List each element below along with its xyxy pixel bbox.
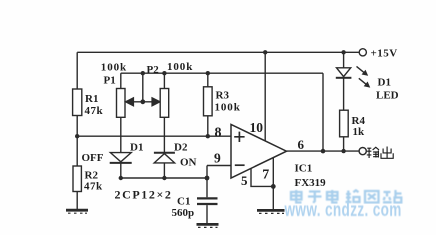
wire left column R1 top lead	[76, 52, 78, 89]
svg-text:2CP12×2: 2CP12×2	[115, 188, 173, 202]
resistor R4	[340, 110, 349, 137]
ground below op-amp	[257, 210, 285, 213]
wire output line pin 6	[287, 150, 359, 152]
ground below C1	[197, 224, 219, 227]
wiper arrows of P1 and P2	[126, 73, 160, 106]
glyph chu	[381, 147, 393, 159]
node pins 5-7 join	[271, 184, 276, 189]
wire LED branch top	[343, 52, 345, 68]
svg-text:P2: P2	[147, 64, 160, 76]
svg-text:R3: R3	[216, 90, 230, 102]
svg-text:FX319: FX319	[295, 177, 327, 189]
node divider tap	[75, 134, 79, 138]
wm char zi	[308, 192, 322, 203]
label 输出 (output, hand-drawn glyphs)	[367, 147, 393, 159]
svg-text:47k: 47k	[84, 181, 103, 193]
wire top +15V rail	[77, 51, 359, 53]
node pin10 supply tap	[263, 50, 267, 54]
svg-text:100k: 100k	[101, 61, 127, 73]
svg-text:C1: C1	[177, 196, 190, 208]
minus sign	[235, 164, 245, 166]
plus sign	[234, 132, 244, 142]
wire pin 10 supply	[264, 52, 266, 141]
wm char zhan	[383, 190, 402, 203]
svg-text:www. cndzz. com: www. cndzz. com	[284, 200, 402, 221]
node D2 bottom	[162, 176, 166, 180]
wire feedback vertical	[322, 73, 324, 151]
svg-text:OFF: OFF	[82, 152, 104, 164]
diode D1	[110, 153, 132, 178]
potentiometer P1	[117, 89, 126, 118]
node D1 bottom	[119, 176, 123, 180]
wire feedback rail	[121, 72, 323, 74]
wire P1 top lead	[120, 73, 122, 88]
svg-text:6: 6	[298, 137, 305, 152]
resistor R2	[73, 166, 81, 192]
wire pin 5	[251, 168, 273, 186]
svg-text:IC1: IC1	[295, 163, 313, 175]
node R3 bottom	[206, 134, 210, 138]
terminal output	[359, 148, 366, 155]
svg-text:100k: 100k	[167, 61, 193, 73]
wire pin8 rail (non-inverting input net)	[77, 135, 231, 137]
svg-text:ON: ON	[180, 157, 197, 169]
wm char dian	[291, 190, 302, 203]
wire R2 to ground	[76, 192, 78, 210]
wire P2 bottom lead	[163, 117, 165, 152]
wire riser to pin 9	[206, 166, 208, 179]
wm char tu	[365, 191, 379, 203]
svg-text:5: 5	[241, 173, 248, 188]
svg-text:100k: 100k	[215, 102, 241, 114]
terminal +15V	[359, 49, 366, 56]
node R4 bottom	[341, 149, 345, 153]
resistor R3	[204, 87, 213, 116]
svg-text:47k: 47k	[85, 105, 104, 117]
wire R4 bottom lead	[343, 137, 345, 151]
wire inverting rail under diodes	[121, 177, 207, 179]
wire P2 top lead	[163, 73, 165, 88]
svg-text:1k: 1k	[353, 126, 366, 138]
svg-text:+15V: +15V	[371, 48, 398, 60]
svg-text:D1: D1	[378, 77, 391, 89]
ground below R2	[66, 210, 88, 213]
svg-text:8: 8	[215, 125, 222, 140]
watermark 电子电路图站 (hand-drawn, light blue)	[291, 190, 402, 203]
wm char lu	[346, 190, 360, 202]
svg-text:R1: R1	[85, 93, 98, 105]
wire R3 top lead	[207, 73, 209, 87]
diode D2	[154, 153, 175, 178]
wire pin 7	[272, 158, 274, 210]
op-amp U1 triangle	[231, 124, 287, 178]
wire P1 bottom lead	[120, 117, 122, 152]
svg-text:560p: 560p	[172, 207, 195, 219]
node C1 top	[205, 176, 210, 181]
capacitor C1	[197, 178, 218, 223]
node LED top	[341, 50, 345, 54]
svg-text:7: 7	[262, 167, 269, 182]
wm char dian2	[327, 190, 338, 203]
resistor R1	[73, 89, 82, 116]
wire R1 bottom to R2 top	[76, 116, 78, 167]
svg-text:LED: LED	[376, 90, 399, 102]
node feedback-output	[321, 149, 326, 154]
svg-text:D2: D2	[174, 142, 188, 154]
node wiper center	[140, 99, 145, 104]
LED D1	[336, 66, 370, 110]
svg-text:P1: P1	[104, 74, 116, 86]
node R3 top	[206, 71, 210, 75]
node wiper-feedback	[141, 71, 145, 75]
wire pin 9 line	[207, 165, 231, 167]
svg-text:9: 9	[214, 151, 221, 166]
svg-text:10: 10	[250, 120, 264, 135]
node P2 top	[162, 71, 166, 75]
svg-text:D1: D1	[130, 142, 143, 154]
wire R3 bottom lead	[207, 116, 209, 136]
potentiometer P2	[160, 89, 169, 118]
glyph shu	[367, 147, 379, 158]
